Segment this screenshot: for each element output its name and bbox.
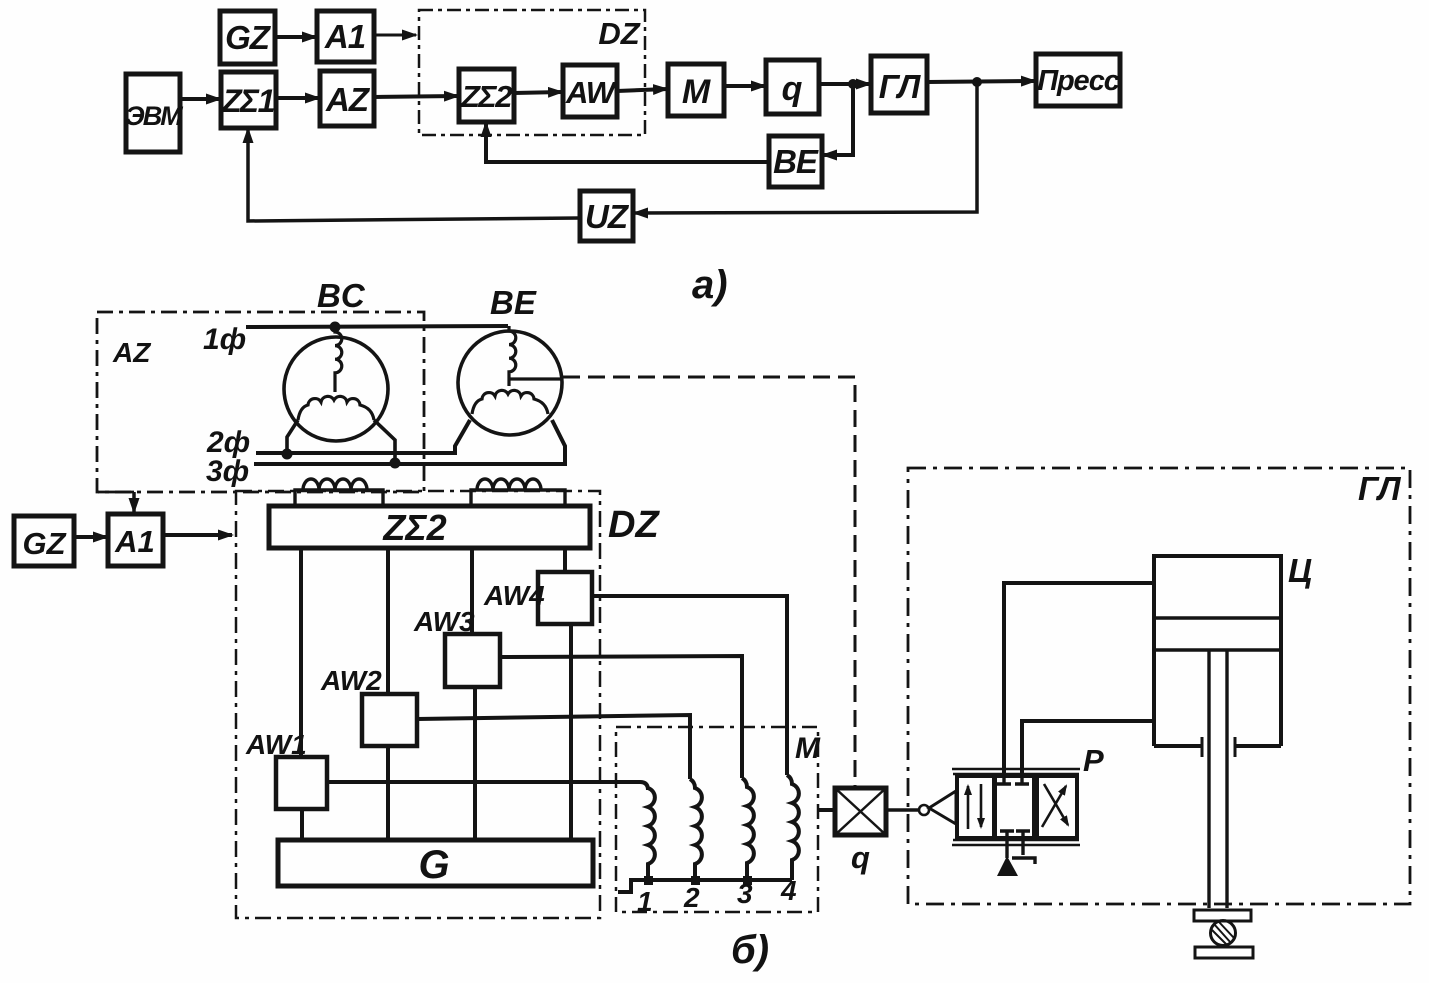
svg-text:GZ: GZ (22, 526, 66, 561)
junction dot coil3 (743, 876, 752, 885)
dashed box DZ (a) (419, 10, 645, 135)
magnet coil 1 (648, 788, 655, 880)
BE stator winding (472, 390, 548, 414)
svg-text:q: q (782, 70, 803, 108)
svg-text:Ц: Ц (1288, 552, 1312, 589)
svg-text:M: M (682, 73, 711, 111)
dash-dot box GP (ГЛ) (908, 468, 1410, 904)
wire AW4 to G (569, 624, 573, 842)
wire q to pilot circle (886, 808, 919, 811)
box q (b) with cross (835, 788, 886, 835)
drain triangle (997, 856, 1018, 876)
coil common bus (618, 880, 792, 892)
svg-text:3: 3 (737, 878, 753, 909)
wire ZS2 to AW4 column (563, 548, 567, 572)
box AW3 (445, 634, 500, 687)
valve top port T A (997, 776, 1011, 784)
svg-text:GZ: GZ (225, 19, 272, 56)
piston rod (1209, 650, 1227, 908)
wire BE output to ZS2a bottom (486, 123, 769, 162)
wire 3f phase line (254, 420, 565, 464)
pipe valve to cylinder bottom chamber (1022, 721, 1156, 776)
wire ZS2 to AW1 column (299, 548, 303, 757)
box GZ (b) (14, 516, 74, 566)
wire arrow ZS1 to AZ (276, 96, 319, 100)
box BE (a) (769, 136, 822, 187)
wire GP to Press with junction (927, 81, 1035, 82)
dash-dot wire BE to q (563, 377, 855, 786)
svg-text:G: G (418, 843, 449, 887)
rod seal left (1201, 737, 1204, 757)
BC rotor coil (335, 327, 342, 392)
box UZ (580, 191, 633, 241)
wire arrow A1 to DZ border (374, 34, 416, 37)
svg-text:ГЛ: ГЛ (1358, 470, 1402, 507)
wire UZ output to ZS1 bottom (248, 129, 580, 221)
svg-text:A1: A1 (324, 18, 365, 55)
wire 2f phase line (256, 420, 470, 453)
valve top port T B (1015, 776, 1029, 784)
valve left cell (957, 776, 994, 838)
wire AW3 output to coil 3 (500, 656, 742, 778)
svg-text:AZ: AZ (325, 81, 371, 118)
dash-dot box M (b) (616, 727, 818, 912)
wire AW1 output to coil 1 (327, 782, 648, 790)
wire ZS2 to AW2 column (386, 548, 390, 694)
BE rotor coil (509, 326, 516, 386)
svg-text:BE: BE (490, 284, 537, 321)
wire arrow M to q (724, 84, 765, 88)
valve left cell down arrow (980, 784, 983, 827)
box M (a) (668, 64, 724, 116)
wire junction to UZ input (634, 82, 977, 213)
svg-text:Пресс: Пресс (1037, 65, 1119, 97)
box AW (a) (563, 65, 618, 117)
svg-text:ЭВМ: ЭВМ (125, 101, 183, 131)
box EVM (ЭВМ computer) (125, 74, 183, 152)
transformer coil under BC (295, 479, 383, 506)
BC stator right lead to 3f (374, 420, 395, 462)
svg-text:3ф: 3ф (206, 455, 249, 488)
arrow AZ box down to A1 (b) (98, 492, 134, 512)
valve left cell up arrow (967, 786, 970, 829)
svg-text:AW1: AW1 (245, 729, 307, 760)
svg-text:AW3: AW3 (413, 606, 475, 637)
junction dot 2f (282, 449, 293, 460)
svg-text:б): б) (731, 928, 769, 972)
wire arrow AW to M (617, 89, 667, 91)
svg-text:q: q (851, 840, 870, 875)
bar G (278, 840, 593, 887)
svg-text:UZ: UZ (585, 198, 630, 235)
box AW1 (276, 757, 327, 809)
piston bottom line (1154, 648, 1281, 651)
box ZS2a (ZΣ2 in part a) (459, 69, 514, 122)
svg-text:1ф: 1ф (203, 323, 246, 356)
svg-text:BE: BE (773, 143, 819, 180)
wire arrow GZ to A1 (275, 35, 316, 39)
svg-text:M: M (795, 732, 821, 765)
wire arrow GZ to A1 (b) (74, 535, 107, 539)
pilot circle (919, 805, 929, 815)
svg-text:ZΣ2: ZΣ2 (382, 507, 446, 548)
BC stator left lead to 2f (287, 420, 298, 452)
synchro BC circle (284, 337, 388, 441)
svg-text:AW2: AW2 (320, 665, 382, 696)
svg-text:ГЛ: ГЛ (879, 68, 922, 105)
wire ZS2 to AW3 column (470, 548, 474, 634)
wire arrow A1 to DZ (b) (163, 533, 232, 537)
valve right cell (1037, 776, 1077, 838)
box ZS1 (ZΣ1 summer) (221, 72, 276, 128)
bar ZS2 (ZΣ2 summing bar) (269, 506, 590, 548)
pipe valve to cylinder top chamber (1004, 583, 1156, 776)
junction dot 1f at BC rotor (330, 322, 341, 333)
junction dot 3f (390, 458, 401, 469)
box GP (ГЛ hydraulic drive) (871, 56, 927, 113)
box q (a) (766, 60, 819, 114)
wire arrow EVM to ZS1 (180, 97, 220, 101)
box GZ (a) (220, 11, 275, 64)
wire q to GP with junction (819, 82, 870, 86)
svg-text:1: 1 (637, 886, 653, 917)
svg-text:DZ: DZ (598, 16, 640, 51)
magnet coil 3 (742, 778, 754, 880)
wire AW1 to G (300, 809, 304, 840)
press plate upper (1194, 910, 1251, 921)
cylinder C body (Ц) (1154, 556, 1281, 746)
svg-text:ZΣ2: ZΣ2 (460, 79, 512, 114)
piston top line (1154, 616, 1281, 619)
svg-text:AW: AW (565, 75, 618, 110)
magnet coil 2 (690, 779, 702, 880)
synchro BE circle (458, 331, 562, 435)
press ball (hatched) (1211, 921, 1236, 946)
valve right cell arrow 1 (1042, 786, 1066, 827)
box A1 (b) (108, 514, 163, 566)
svg-text:DZ: DZ (608, 504, 660, 546)
valve middle cell (995, 776, 1034, 838)
wire M box to q (818, 808, 835, 812)
pilot triangle link (929, 791, 956, 824)
svg-text:P: P (1083, 743, 1104, 778)
svg-text:а): а) (692, 263, 728, 307)
magnet coil 4 (787, 775, 799, 880)
wire AW2 output to coil 2 (417, 715, 690, 779)
valve P outer rails (952, 769, 1080, 845)
box AW4 (538, 572, 592, 624)
valve right cell arrow 2 (1044, 784, 1068, 825)
dash-dot box AZ (b) (97, 312, 424, 492)
dash-dot box DZ (b) (236, 491, 600, 918)
valve bottom port T A (1000, 831, 1014, 843)
svg-text:ZΣ1: ZΣ1 (221, 83, 274, 119)
junction dot GP-Press (972, 77, 982, 87)
wire 1f phase line (246, 326, 508, 327)
svg-text:4: 4 (780, 875, 797, 906)
wire arrow ZS2a to AW (514, 92, 562, 93)
press plate lower (1195, 947, 1253, 958)
box A1 (a) (317, 11, 374, 62)
valve bottom port T B (1016, 831, 1030, 843)
drain stub left (1005, 843, 1008, 858)
wire junction to BE input (823, 84, 853, 155)
svg-text:A1: A1 (114, 524, 155, 559)
box Press (Пресс) (1036, 54, 1120, 106)
svg-text:2: 2 (683, 882, 700, 913)
BC stator winding (298, 396, 374, 420)
svg-text:BC: BC (317, 277, 366, 314)
wire AW3 to G (473, 687, 477, 841)
box AZ (a) (320, 71, 374, 126)
drain stub right with tank tick (1012, 843, 1035, 864)
box AW2 (362, 694, 417, 746)
svg-text:AZ: AZ (112, 337, 151, 368)
rod seal right (1234, 737, 1237, 757)
transformer coil under BE (471, 479, 565, 506)
svg-text:AW4: AW4 (483, 580, 545, 611)
BE rotor output line (510, 377, 562, 380)
wire AW2 to G (386, 746, 390, 841)
junction dot coil2 (691, 876, 700, 885)
junction dot q-GP (848, 79, 858, 89)
junction dot coil1 (644, 876, 653, 885)
wire arrow AZ to ZS2a (374, 96, 458, 97)
wire AW4 output to coil 4 (592, 596, 787, 775)
